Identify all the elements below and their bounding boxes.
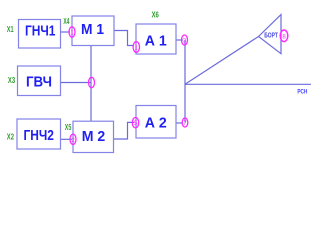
svg-text:А 2: А 2 [145, 114, 167, 131]
wire А1 right stub [176, 39, 183, 41]
svg-text:X6: X6 [152, 10, 159, 20]
svg-text:X1: X1 [7, 24, 14, 34]
svg-text:X2: X2 [7, 131, 14, 141]
block ГНЧ1 [19, 20, 61, 49]
block М1 [72, 16, 114, 46]
svg-text:М 2: М 2 [82, 128, 106, 145]
svg-text:ГНЧ1: ГНЧ1 [25, 22, 56, 39]
svg-text:ГНЧ2: ГНЧ2 [23, 127, 54, 144]
speaker БОРТ triangle [259, 15, 282, 54]
pin junction ГВЧ [89, 77, 95, 87]
svg-text:М 1: М 1 [81, 21, 104, 38]
wire ГНЧ2 to М2 [61, 138, 73, 140]
pin 8 БОРТ [280, 30, 288, 42]
svg-text:ГВЧ: ГВЧ [26, 73, 52, 90]
svg-text:X5: X5 [65, 122, 72, 132]
wire М2 to А2 [114, 122, 135, 139]
svg-text:РСН: РСН [297, 88, 307, 95]
pin 2 М2 left [70, 134, 76, 144]
wire М1 bottom to М2 top [90, 46, 92, 122]
pin 1 А1 left [133, 42, 139, 53]
pin 7 А2 right [182, 118, 188, 127]
wire horizontal to РСН [185, 83, 311, 85]
pin 5 А2 left [132, 118, 138, 128]
wire М1 to А1 [114, 31, 134, 46]
svg-text:А 1: А 1 [145, 32, 167, 49]
wire А2 right stub [176, 122, 183, 124]
wire diagonal to БОРТ [185, 37, 259, 85]
block А1 [136, 24, 176, 54]
block ГВЧ [18, 66, 61, 96]
block М2 [73, 121, 114, 152]
wire ГВЧ to junction [61, 82, 92, 84]
block ГНЧ2 [17, 119, 61, 149]
svg-text:X3: X3 [8, 75, 15, 85]
pin 1 М1 left [69, 27, 75, 37]
wire vertical bus А1 to А2 [184, 40, 186, 123]
svg-text:БОРТ: БОРТ [264, 33, 278, 40]
wire ГНЧ1 to М1 [61, 31, 71, 33]
pin 3 А1 right [182, 35, 188, 45]
svg-text:X4: X4 [63, 16, 69, 26]
block А2 [136, 106, 176, 139]
